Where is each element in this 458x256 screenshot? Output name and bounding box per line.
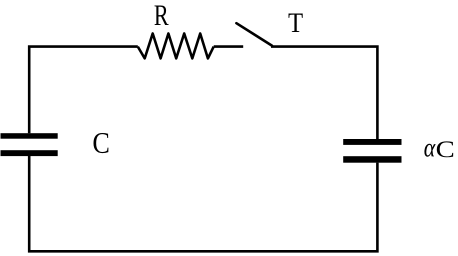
label C [93, 133, 108, 153]
capacitor aC (right) bottom plate [343, 156, 401, 163]
wire: left vertical top segment + top-left corner + top wire to resistor [29, 47, 138, 134]
wire: switch right contact to top-right corner, down to right capacitor [271, 47, 377, 140]
resistor R [138, 34, 214, 59]
capacitor C (left) bottom plate [1, 150, 58, 156]
label R [154, 6, 168, 25]
label alpha (of aC) [424, 144, 435, 157]
label T [289, 13, 303, 32]
label C (of aC) [437, 141, 453, 157]
wire: resistor to switch left contact [214, 45, 244, 48]
wire: right vertical below capacitor, bottom wire, left vertical up to capacitor C [29, 156, 377, 251]
capacitor C (left) top plate [1, 133, 58, 139]
capacitor aC (right) top plate [343, 139, 401, 145]
switch T (open arm) [236, 23, 272, 45]
